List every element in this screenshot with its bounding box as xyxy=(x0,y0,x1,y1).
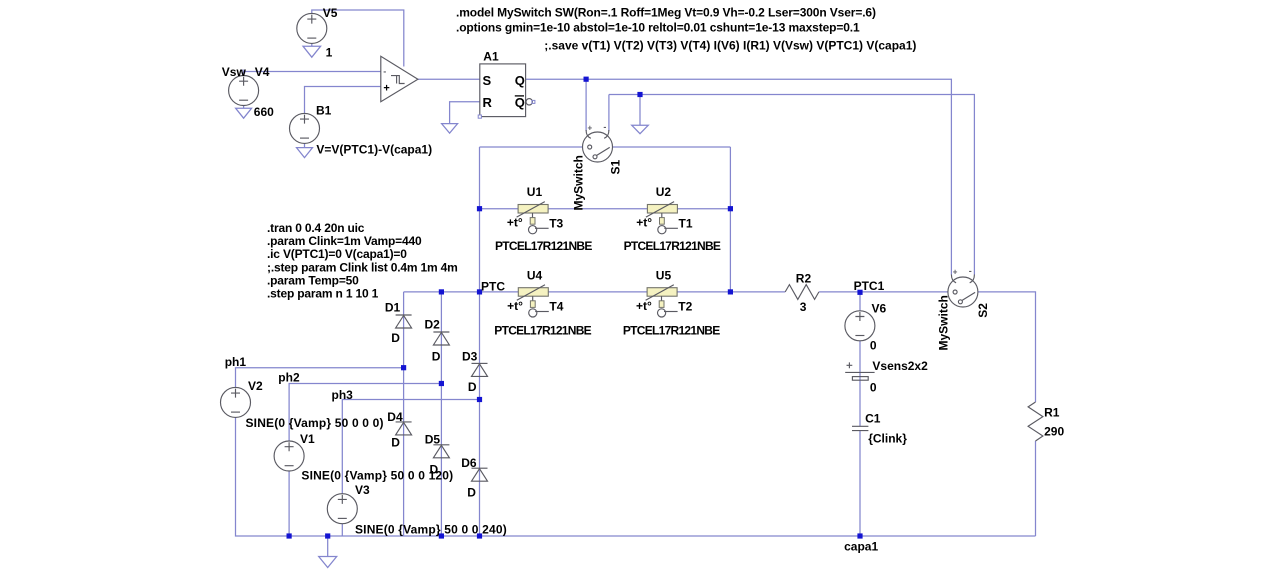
svg-text:0: 0 xyxy=(870,381,877,395)
svg-text:V5: V5 xyxy=(323,6,338,20)
svg-text:+t°: +t° xyxy=(636,216,652,230)
svg-text:SINE(0 {Vamp} 50 0 0 0): SINE(0 {Vamp} 50 0 0 0) xyxy=(246,416,384,430)
svg-text:.model MySwitch SW(Ron=.1 Roff: .model MySwitch SW(Ron=.1 Roff=1Meg Vt=0… xyxy=(456,6,876,20)
svg-text:U2: U2 xyxy=(656,185,672,199)
svg-text:R: R xyxy=(483,95,493,110)
svg-text:290: 290 xyxy=(1044,425,1064,439)
svg-text:T3: T3 xyxy=(549,216,563,230)
svg-text:ph3: ph3 xyxy=(332,388,354,402)
svg-text:PTCEL17R121NBE: PTCEL17R121NBE xyxy=(624,239,721,253)
svg-text:SINE(0 {Vamp} 50 0 0 120): SINE(0 {Vamp} 50 0 0 120) xyxy=(301,469,453,483)
svg-text:Vsens2x2: Vsens2x2 xyxy=(872,359,928,373)
svg-text:3: 3 xyxy=(800,300,807,314)
svg-text:PTCEL17R121NBE: PTCEL17R121NBE xyxy=(623,324,720,338)
svg-text:.ic V(PTC1)=0 V(capa1)=0: .ic V(PTC1)=0 V(capa1)=0 xyxy=(267,247,407,261)
svg-text:V6: V6 xyxy=(872,301,887,315)
svg-text:D1: D1 xyxy=(385,301,401,315)
svg-text:D: D xyxy=(391,331,400,345)
svg-text:capa1: capa1 xyxy=(844,539,878,553)
svg-text:D: D xyxy=(468,380,477,394)
svg-text:R2: R2 xyxy=(796,271,812,285)
svg-text:T1: T1 xyxy=(679,216,693,230)
svg-text:660: 660 xyxy=(254,105,274,119)
svg-text:PTC: PTC xyxy=(481,279,505,293)
svg-text:D3: D3 xyxy=(462,349,478,363)
svg-text:D: D xyxy=(432,349,441,363)
svg-text:+t°: +t° xyxy=(636,299,652,313)
svg-text:U5: U5 xyxy=(656,268,672,282)
svg-text:+: + xyxy=(953,268,958,277)
svg-text:T4: T4 xyxy=(549,300,563,314)
svg-text:ph1: ph1 xyxy=(225,355,247,369)
svg-text:S2: S2 xyxy=(976,303,990,318)
svg-text:ph2: ph2 xyxy=(278,371,300,385)
svg-text:.param Temp=50: .param Temp=50 xyxy=(267,273,359,287)
svg-text:-: - xyxy=(383,66,386,76)
svg-text:D: D xyxy=(467,486,476,500)
svg-text:MySwitch: MySwitch xyxy=(571,155,585,210)
svg-text:Q: Q xyxy=(515,73,525,88)
svg-text:S: S xyxy=(483,73,492,88)
svg-text:D5: D5 xyxy=(425,432,441,446)
svg-text:C1: C1 xyxy=(865,411,881,425)
svg-text:+: + xyxy=(383,83,389,95)
svg-text:U1: U1 xyxy=(527,185,543,199)
svg-text:B1: B1 xyxy=(316,104,332,118)
svg-text:U4: U4 xyxy=(527,268,543,282)
svg-text:Vsw: Vsw xyxy=(222,65,247,79)
svg-text:.step param n 1 10 1: .step param n 1 10 1 xyxy=(267,287,379,301)
svg-text:D6: D6 xyxy=(461,456,477,470)
svg-text:A1: A1 xyxy=(483,50,499,64)
svg-text:V=V(PTC1)-V(capa1): V=V(PTC1)-V(capa1) xyxy=(316,142,432,156)
svg-text:MySwitch: MySwitch xyxy=(936,295,950,350)
svg-text:D2: D2 xyxy=(425,318,441,332)
svg-text:PTC1: PTC1 xyxy=(854,279,885,293)
svg-text:-: - xyxy=(603,122,606,132)
svg-text:PTCEL17R121NBE: PTCEL17R121NBE xyxy=(495,239,592,253)
svg-text:V3: V3 xyxy=(355,483,370,497)
svg-text:-: - xyxy=(969,266,972,276)
svg-text:1: 1 xyxy=(326,46,333,60)
svg-text:V1: V1 xyxy=(300,432,315,446)
svg-text:+: + xyxy=(588,124,593,133)
svg-text:.tran 0 0.4 20n uic: .tran 0 0.4 20n uic xyxy=(267,221,365,235)
svg-text:+t°: +t° xyxy=(507,216,523,230)
svg-text:0: 0 xyxy=(870,338,877,352)
svg-text:+t°: +t° xyxy=(507,299,523,313)
svg-text:D: D xyxy=(391,436,400,450)
svg-text:R1: R1 xyxy=(1044,405,1060,419)
svg-text:V2: V2 xyxy=(248,379,263,393)
svg-text:;.step param Clink list 0.4m 1: ;.step param Clink list 0.4m 1m 4m xyxy=(267,260,458,274)
svg-text:V4: V4 xyxy=(255,65,270,79)
svg-text:Q: Q xyxy=(515,95,525,110)
svg-text:PTCEL17R121NBE: PTCEL17R121NBE xyxy=(494,324,591,338)
svg-text:{Clink}: {Clink} xyxy=(868,432,907,446)
svg-text:T2: T2 xyxy=(678,300,692,314)
svg-text:S1: S1 xyxy=(609,159,623,174)
svg-text:;.save v(T1) V(T2) V(T3) V(T4): ;.save v(T1) V(T2) V(T3) V(T4) I(V6) I(R… xyxy=(544,39,916,53)
svg-text:.param Clink=1m Vamp=440: .param Clink=1m Vamp=440 xyxy=(267,234,422,248)
svg-text:SINE(0 {Vamp} 50 0 0 240): SINE(0 {Vamp} 50 0 0 240) xyxy=(355,523,507,537)
svg-text:.options gmin=1e-10 abstol=1e-: .options gmin=1e-10 abstol=1e-10 reltol=… xyxy=(456,21,860,35)
svg-text:D4: D4 xyxy=(387,410,403,424)
